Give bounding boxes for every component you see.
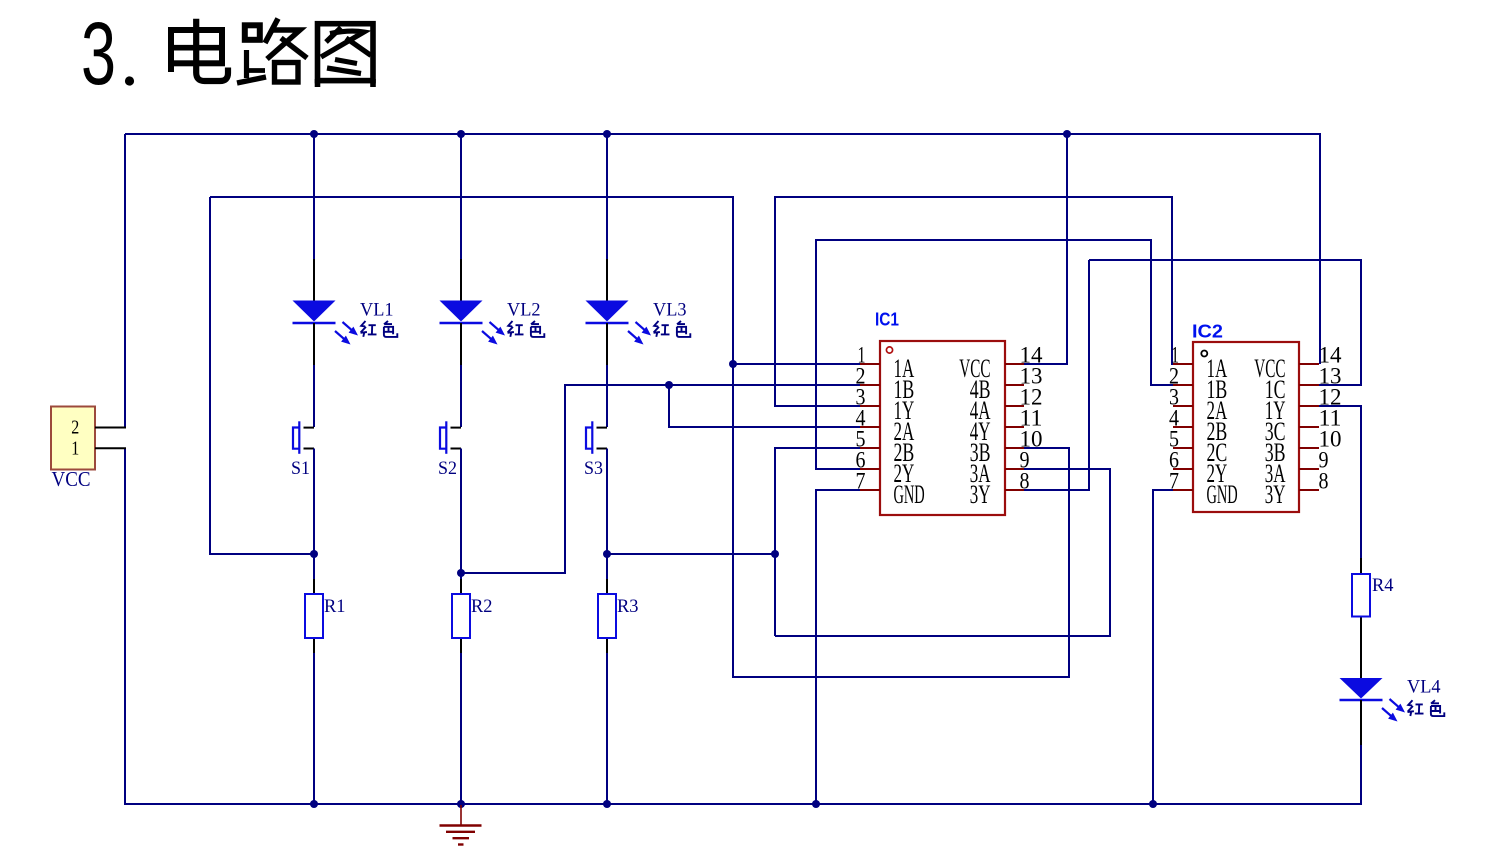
- IC2 pin number 5: [1169, 427, 1179, 452]
- IC1 pin number 7: [856, 469, 866, 494]
- IC2 pin label 2C: [1207, 438, 1228, 467]
- label S2: [438, 458, 457, 479]
- IC1 pin 5 stub: [860, 447, 880, 449]
- IC1 pin number 13: [1020, 364, 1043, 389]
- svg-text:VL2: VL2: [507, 300, 541, 321]
- svg-text:R1: R1: [324, 596, 346, 617]
- IC2 pin 6 stub: [1173, 468, 1193, 470]
- IC1 pin number 12: [1020, 385, 1043, 410]
- LED VL4 emission arrows: [1382, 699, 1405, 722]
- IC1 pin label 3B: [970, 438, 991, 467]
- resistor R1: [305, 578, 323, 654]
- wire net A lower horizontal y677: [733, 676, 1070, 678]
- IC1 pin1 indicator circle: [886, 347, 892, 353]
- label VL3: [653, 300, 687, 321]
- IC1 pin 2 stub: [860, 384, 880, 386]
- IC2 pin number 12: [1319, 385, 1342, 410]
- IC1 pin label 1B: [894, 375, 915, 404]
- svg-text:GND: GND: [1207, 480, 1238, 509]
- wire R4 to VL4 (black pins): [1360, 632, 1362, 678]
- IC1 pin number 4: [856, 406, 866, 431]
- IC2 pin 13 stub: [1299, 384, 1319, 386]
- IC1 pin label 1A: [894, 354, 915, 383]
- wire net B to IC1 pin2: [565, 384, 861, 386]
- wire R1 to bottom rail: [313, 653, 315, 804]
- svg-text:7: 7: [856, 469, 866, 494]
- title fullwidth dot: [125, 76, 134, 85]
- svg-text:3Y: 3Y: [970, 480, 991, 509]
- IC1 pin label 2B: [894, 438, 915, 467]
- title char 图: [318, 24, 374, 87]
- IC2 pin 8 stub: [1299, 489, 1319, 491]
- junction dot bottom rail IC2 GND: [1149, 800, 1157, 808]
- IC2 pin label 1Y: [1265, 396, 1286, 425]
- svg-text:VL4: VL4: [1407, 677, 1441, 698]
- junction dot bottom rail R3: [603, 800, 611, 808]
- svg-text:VL1: VL1: [360, 300, 394, 321]
- IC1 pin 13 stub: [1005, 384, 1024, 386]
- label R4: [1372, 575, 1394, 596]
- wire left rail upper (VCC pin2 to top rail): [124, 134, 126, 429]
- label VL1: [360, 300, 394, 321]
- IC1 pin 8 stub: [1005, 489, 1024, 491]
- LED VL1: [293, 134, 336, 365]
- ground: [440, 805, 482, 845]
- label VL4 红色: [1408, 700, 1445, 716]
- wire VL4 to bottom rail: [1360, 745, 1362, 805]
- svg-text:7: 7: [1169, 469, 1179, 494]
- svg-text:S1: S1: [291, 458, 310, 479]
- label VCC: [52, 467, 91, 491]
- IC1 pin number 2: [856, 364, 866, 389]
- node A junction dot at R1: [310, 550, 318, 558]
- IC2 pin 5 stub: [1173, 447, 1193, 449]
- svg-text:VL3: VL3: [653, 300, 687, 321]
- resistor R4: [1352, 558, 1370, 633]
- junction dot top rail VL2: [457, 130, 465, 138]
- IC1 pin 12 stub: [1005, 405, 1024, 407]
- label VL4: [1407, 677, 1441, 698]
- IC2 pin number 2: [1169, 364, 1179, 389]
- IC1 pin label GND: [894, 480, 925, 509]
- IC2 pin number 6: [1169, 448, 1179, 473]
- svg-text:GND: GND: [894, 480, 925, 509]
- IC2 pin number 1: [1171, 343, 1179, 368]
- IC2 pin 14 stub: [1299, 363, 1319, 365]
- IC1 pin label 2A: [894, 417, 915, 446]
- IC2 pin label GND: [1207, 480, 1238, 509]
- IC2 pin 9 stub: [1299, 468, 1319, 470]
- IC1 pin label 4B: [970, 375, 991, 404]
- IC1 pin label 1Y: [894, 396, 915, 425]
- wire IC2 VCC pin14 drop from top rail: [1319, 133, 1321, 364]
- LED VL4: [1340, 678, 1383, 746]
- LED VL2 emission arrows: [482, 322, 505, 345]
- wire R2 to bottom rail: [460, 653, 462, 804]
- IC2 pin1 indicator circle: [1201, 351, 1207, 357]
- wire S2 to node B: [460, 449, 462, 575]
- label IC1: [875, 309, 899, 330]
- svg-text:IC1: IC1: [875, 309, 899, 330]
- connector VCC box: [51, 407, 95, 470]
- IC2 pin label 1C: [1265, 375, 1286, 404]
- wire S1 to node A: [313, 449, 315, 556]
- title numeral 3: [81, 3, 116, 103]
- label S1: [291, 458, 310, 479]
- IC2 pin 12 stub: [1299, 405, 1319, 407]
- IC U1 (IC1) body outline: [880, 341, 1005, 515]
- IC2 pin number 3: [1169, 385, 1179, 410]
- wire net A horizontal (y197 left): [210, 196, 734, 198]
- LED VL1 emission arrows: [335, 322, 358, 345]
- wire net A riser to IC1 pin10: [1023, 447, 1070, 677]
- IC2 pin number 7: [1169, 469, 1179, 494]
- svg-text:1: 1: [71, 438, 79, 460]
- IC U2 (IC2) body outline: [1193, 342, 1299, 512]
- IC2 pin 10 stub: [1299, 447, 1319, 449]
- wire net B drop to IC1 pin4: [669, 385, 861, 428]
- IC2 pin 1 stub: [1173, 363, 1193, 365]
- IC1 pin label VCC: [959, 354, 990, 383]
- svg-text:VCC: VCC: [52, 467, 91, 491]
- junction dot top rail VL3: [603, 130, 611, 138]
- wire node C horizontal: [607, 553, 776, 555]
- wire net A to IC1 pin1: [733, 363, 861, 365]
- IC1 pin number 8: [1020, 469, 1030, 494]
- IC2 pin label 3A: [1265, 459, 1286, 488]
- IC1 pin label 4A: [970, 396, 991, 425]
- IC2 pin number 8: [1319, 469, 1329, 494]
- IC1 pin 7 stub: [860, 489, 880, 491]
- IC1 pin 1 stub: [860, 363, 880, 365]
- svg-text:S3: S3: [584, 458, 603, 479]
- wire node B riser x565: [564, 384, 566, 574]
- wire IC1 output 2Y net (pin6 to IC2 pin2): [816, 239, 1174, 470]
- wire IC1 output 3Y net (pin8 to IC2 pin13): [1023, 259, 1362, 491]
- IC1 pin label 3A: [970, 459, 991, 488]
- label R3: [617, 596, 639, 617]
- junction dot IC1 VCC on top rail: [1063, 130, 1071, 138]
- label VL2: [507, 300, 541, 321]
- svg-text:8: 8: [1319, 469, 1329, 494]
- IC2 pin label 2B: [1207, 417, 1228, 446]
- junction dot bottom rail R1: [310, 800, 318, 808]
- IC2 pin label 1A: [1207, 354, 1228, 383]
- IC1 pin number 6: [856, 448, 866, 473]
- wire node C lower path to IC1 pin9: [775, 468, 1111, 637]
- IC2 pin 11 stub: [1299, 426, 1319, 428]
- LED VL3 emission arrows: [628, 322, 651, 345]
- wire net A vertical x733: [732, 196, 734, 678]
- wire node C to R3: [606, 554, 608, 579]
- node C junction dot at R3: [603, 550, 611, 558]
- IC2 pin label 3Y: [1265, 480, 1286, 509]
- wire S3 to node C: [606, 449, 608, 556]
- label R2: [471, 596, 493, 617]
- node B junction dot split: [665, 381, 673, 389]
- IC1 pin label 4Y: [970, 417, 991, 446]
- wire IC1 GND pin7 down: [816, 489, 861, 804]
- IC2 pin number 4: [1169, 406, 1179, 431]
- node B junction dot at R2: [457, 569, 465, 577]
- IC1 pin 14 stub: [1005, 363, 1024, 365]
- resistor R3: [598, 578, 616, 654]
- resistor R2: [452, 578, 470, 654]
- IC1 pin 4 stub: [860, 426, 880, 428]
- label IC2: [1192, 321, 1223, 342]
- label VL3 红色: [654, 321, 691, 337]
- title char 电: [171, 19, 228, 81]
- IC2 pin 3 stub: [1173, 405, 1193, 407]
- IC2 pin label 1B: [1207, 375, 1228, 404]
- IC2 pin label 3B: [1265, 438, 1286, 467]
- IC1 pin number 14: [1020, 343, 1044, 368]
- IC1 pin 6 stub: [860, 468, 880, 470]
- wire top VCC rail: [125, 133, 1320, 135]
- node A junction dot at IC1 pin1: [729, 360, 737, 368]
- wire node A stub: [210, 197, 315, 555]
- label R1: [324, 596, 346, 617]
- IC1 pin number 9: [1020, 448, 1030, 473]
- LED VL3: [586, 134, 629, 365]
- IC1 pin 9 stub: [1005, 468, 1024, 470]
- IC1 pin number 1: [858, 343, 866, 368]
- LED VL2: [440, 134, 483, 365]
- IC1 pin 3 stub: [860, 405, 880, 407]
- switch S2: [440, 365, 461, 454]
- wire node B to R2: [460, 573, 462, 579]
- wire left rail lower (VCC pin1 to bottom rail): [124, 448, 126, 806]
- wire bottom GND rail: [125, 803, 1361, 805]
- node C junction dot mid: [771, 550, 779, 558]
- svg-text:2: 2: [71, 417, 79, 439]
- label VL1 红色: [361, 321, 398, 337]
- IC2 pin number 13: [1319, 364, 1342, 389]
- wire IC2 output 1Y (pin12) to R4 column: [1318, 405, 1361, 560]
- IC1 pin 10 stub: [1005, 447, 1024, 449]
- IC1 pin number 3: [856, 385, 866, 410]
- IC2 pin label VCC: [1254, 354, 1285, 383]
- svg-text:3Y: 3Y: [1265, 480, 1286, 509]
- pin 2 of VCC connector: [71, 417, 126, 439]
- svg-text:3: 3: [81, 3, 116, 103]
- wire IC1 VCC pin14 to top rail: [1023, 133, 1067, 365]
- junction dot bottom rail R2: [457, 800, 465, 808]
- IC1 pin 11 stub: [1005, 426, 1024, 428]
- IC2 pin number 14: [1319, 343, 1343, 368]
- switch S3: [586, 365, 607, 454]
- wire R3 to bottom rail: [606, 653, 608, 804]
- IC1 pin number 10: [1020, 427, 1043, 452]
- IC1 pin number 11: [1020, 406, 1043, 431]
- IC1 pin label 3Y: [970, 480, 991, 509]
- wire IC1 output 1Y net (pin3 to IC2 pin1): [775, 196, 1174, 407]
- IC1 pin label 2Y: [894, 459, 915, 488]
- svg-text:S2: S2: [438, 458, 457, 479]
- label S3: [584, 458, 603, 479]
- wire node C riser to IC1 pin5: [774, 447, 861, 553]
- IC2 pin label 2Y: [1207, 459, 1228, 488]
- wire node A to R1: [313, 554, 315, 579]
- svg-text:IC2: IC2: [1192, 321, 1223, 342]
- pin 1 of VCC connector: [71, 438, 126, 460]
- wire node B horizontal: [461, 572, 566, 574]
- wire IC2 GND pin7 down: [1152, 489, 1174, 804]
- IC1 pin number 5: [856, 427, 866, 452]
- junction dot top rail VL1: [310, 130, 318, 138]
- switch S1: [293, 365, 314, 454]
- svg-text:R2: R2: [471, 596, 493, 617]
- IC2 pin number 9: [1319, 448, 1329, 473]
- junction dot bottom rail IC1 GND: [812, 800, 820, 808]
- IC2 pin 7 stub: [1173, 489, 1193, 491]
- IC2 pin 2 stub: [1173, 384, 1193, 386]
- svg-text:R3: R3: [617, 596, 639, 617]
- svg-text:R4: R4: [1372, 575, 1394, 596]
- IC2 pin label 2A: [1207, 396, 1228, 425]
- IC2 pin 4 stub: [1173, 426, 1193, 428]
- IC2 pin number 10: [1319, 427, 1342, 452]
- label VL2 红色: [508, 321, 545, 337]
- IC2 pin number 11: [1319, 406, 1342, 431]
- IC2 pin label 3C: [1265, 417, 1286, 446]
- svg-text:8: 8: [1020, 469, 1030, 494]
- title char 路: [237, 19, 307, 84]
